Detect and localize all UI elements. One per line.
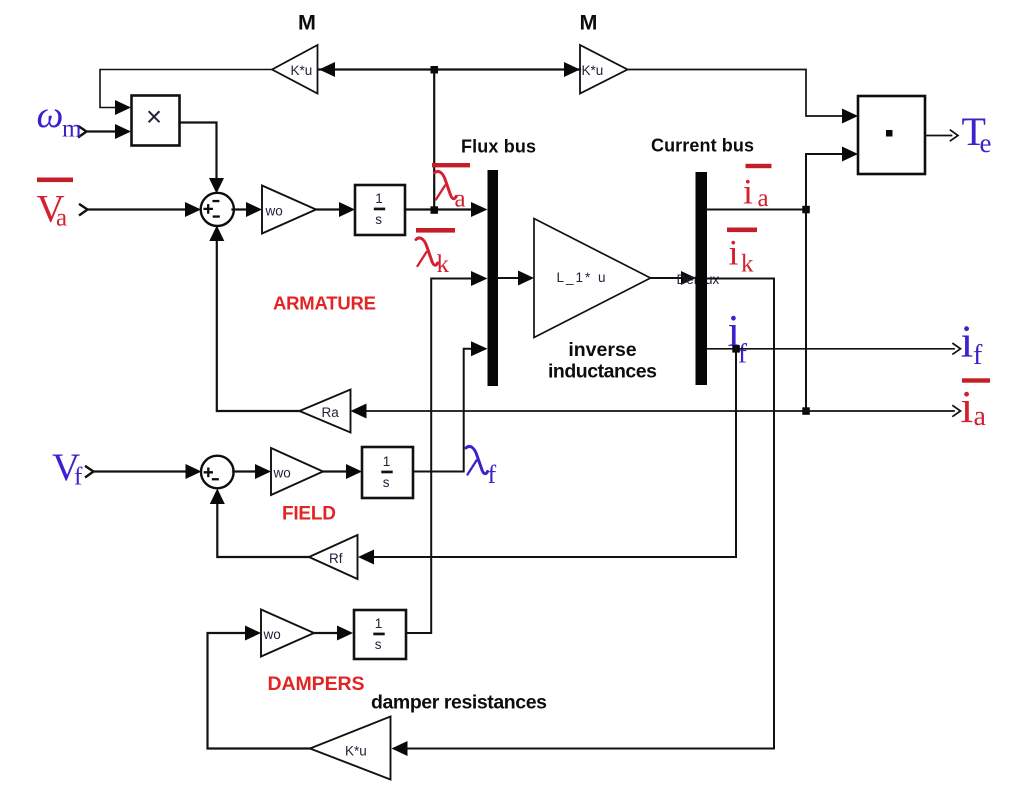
wire: top M feedback bus (y=69.5) [319, 68, 580, 70]
integrator I3 (1/s dampers) [354, 610, 406, 659]
integrator I2 (1/s field) [362, 447, 413, 498]
svg-text:s: s [375, 212, 382, 227]
open arrowhead at i_f label [953, 344, 961, 355]
wire: dot product output to T_e [925, 135, 952, 137]
junction node at (806,209.5) [802, 206, 810, 214]
svg-text:1: 1 [375, 191, 383, 206]
junction node at (806,411) [802, 407, 810, 415]
svg-text:a: a [56, 205, 67, 232]
svg-text:inverse: inverse [568, 339, 636, 361]
open arrowhead at right i_a label [953, 406, 961, 417]
dot product block P1 [858, 96, 925, 174]
input port omega_m chevron [79, 127, 87, 137]
svg-text:K*u: K*u [582, 63, 604, 78]
svg-text:s: s [383, 475, 390, 490]
svg-text:i: i [961, 316, 974, 367]
wire: gain M2 output right, down, into dot product top input [628, 70, 843, 117]
gain M1 (K*u, points left) [272, 45, 318, 94]
label i_a overline (red, right) [962, 378, 990, 382]
svg-text:wo: wo [263, 627, 281, 642]
integrator I1 (1/s armature) [355, 185, 405, 235]
gain wo1 (armature) [262, 186, 316, 234]
wire: i_a out to right label [806, 410, 954, 412]
wire: i_k output right then down to damper K*u feedback [408, 279, 775, 749]
wire: I1 output to Flux bus (lambda_a) [405, 208, 471, 210]
sum junction S1 (armature) [201, 193, 234, 226]
gain K*u dampers (points left) [310, 717, 391, 780]
svg-text:M: M [580, 11, 598, 35]
sum junction S2 (field) [201, 456, 234, 489]
svg-text:k: k [437, 251, 450, 278]
svg-text:e: e [980, 128, 992, 158]
svg-text:s: s [375, 637, 382, 652]
wire: sum1 to gain wo1 [233, 208, 247, 210]
wire: i_a feedback long line left into gain Ra [367, 410, 807, 412]
wire: Flux bus output into gain L_1*u [498, 277, 518, 279]
input port V_f chevron [86, 467, 94, 477]
wire: vertical from top wire down to lambda_a node [433, 70, 435, 208]
svg-text:f: f [488, 460, 497, 489]
wire: wo2 to integrator I2 [323, 470, 346, 472]
gain M2 (K*u, points right) [580, 45, 628, 94]
wire: damper K*u output left, up, into gain wo3 [208, 633, 311, 749]
svg-text:Ra: Ra [322, 405, 340, 420]
svg-text:wo: wo [265, 204, 283, 219]
svg-text:K*u: K*u [291, 63, 313, 78]
input port V_a chevron [80, 205, 88, 215]
wire: wo1 to integrator I1 [316, 208, 339, 210]
wire: field flux vertical up into Flux bus (lambda_f input) [413, 349, 471, 472]
svg-text:ω: ω [37, 94, 64, 136]
wire: Rf output left then up into sum2 bottom [217, 504, 309, 557]
wire: junction (806,209.5) up into dot product bottom input [806, 154, 842, 210]
wire: gain M1 output down-left into product block input 1 [100, 70, 272, 108]
svg-text:a: a [974, 401, 987, 432]
svg-text:Flux bus: Flux bus [461, 137, 536, 157]
svg-text:L_1* u: L_1* u [557, 270, 606, 285]
label lambda_a (red) [435, 171, 457, 199]
product block X [132, 96, 180, 146]
svg-text:a: a [455, 186, 466, 213]
svg-text:DAMPERS: DAMPERS [268, 673, 365, 695]
svg-text:f: f [74, 464, 83, 491]
label lambda_a overline (red) [432, 163, 470, 167]
svg-text:ARMATURE: ARMATURE [273, 293, 376, 314]
svg-text:wo: wo [273, 466, 291, 481]
svg-text:a: a [758, 185, 769, 212]
junction node at (736,348.8) [732, 345, 740, 353]
wire: i_f junction down and left into gain Rf [374, 349, 736, 557]
svg-text:f: f [738, 339, 747, 369]
label lambda_f (blue) [466, 446, 488, 474]
label lambda_k (red) [416, 238, 438, 266]
svg-text:damper resistances: damper resistances [371, 692, 547, 714]
junction node at x=434 on top wire [431, 66, 439, 74]
svg-text:k: k [741, 251, 754, 278]
svg-text:1: 1 [383, 454, 391, 469]
svg-text:M: M [298, 11, 316, 35]
gain wo2 (field) [271, 448, 323, 495]
svg-text:1: 1 [375, 616, 383, 631]
arrowhead into gain M1 (points left) [319, 62, 335, 77]
wire: product output down into sum1 top (minus) [180, 123, 217, 179]
wire: Current bus output i_a to junction [707, 209, 806, 211]
wire: sum2 to gain wo2 [233, 470, 255, 472]
svg-text:Rf: Rf [329, 551, 343, 566]
label i_k overline (red) [727, 228, 757, 233]
gain Rf (points left) [309, 535, 358, 579]
svg-text:×: × [146, 101, 162, 132]
svg-text:f: f [973, 340, 983, 371]
wire: Ra output left then up into sum1 bottom [217, 241, 300, 411]
gain U1 (L_1*u inverse inductances) [534, 219, 651, 338]
junction node lambda_a [431, 206, 439, 214]
label V_a overline (red) [37, 178, 73, 183]
Current bus bar [696, 172, 708, 385]
wire: omega_m into product block input 2 [87, 130, 116, 132]
wire: wo3 to integrator I3 [314, 632, 337, 634]
wire: V_f into sum2 [94, 470, 186, 472]
svg-text:m: m [62, 116, 82, 143]
svg-text:inductances: inductances [548, 361, 657, 383]
wire: damper flux vertical up into Flux bus (lambda_k input) [406, 279, 471, 634]
svg-text:i: i [743, 172, 753, 212]
label lambda_k overline (red) [416, 228, 455, 233]
wire: V_a into sum1 [88, 208, 186, 210]
gain Ra (points left) [300, 390, 351, 433]
wire: i_f output long line to right [707, 348, 954, 350]
open arrowhead at T_e [951, 130, 959, 141]
Flux bus bar [488, 170, 499, 386]
svg-text:i: i [729, 233, 739, 273]
label i_a overline (red, near bus) [746, 164, 772, 168]
wire: junction (806,209.5) down to (806,411) [805, 210, 807, 412]
svg-text:Current bus: Current bus [651, 136, 754, 156]
gain wo3 (dampers) [261, 610, 314, 657]
wire: L_1*u output into Demux / Current bus [651, 277, 682, 279]
arrowhead into gain M2 (points right) [564, 62, 580, 77]
svg-text:i: i [961, 381, 974, 432]
svg-text:FIELD: FIELD [282, 504, 336, 525]
svg-text:K*u: K*u [345, 744, 367, 759]
